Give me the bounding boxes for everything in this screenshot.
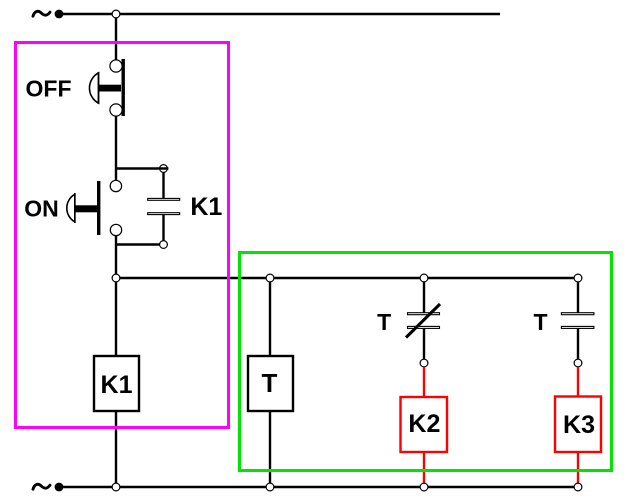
terminal dot bottom <box>55 483 64 492</box>
red wire: node to K3 coil <box>577 367 579 397</box>
timed contact T (NO) plate upper <box>561 313 594 315</box>
timer coil T <box>248 356 293 411</box>
wire: horizontal distribution rail <box>116 277 578 279</box>
svg-text:ON: ON <box>24 196 59 222</box>
wire: branch top horizontal <box>116 167 168 169</box>
wire: K3 branch upper <box>577 278 579 313</box>
red wire: K2 coil to bottom rail <box>423 452 425 487</box>
svg-text:OFF: OFF <box>26 76 72 102</box>
pushbutton ON (NO) contact bar <box>97 181 100 235</box>
contactor coil K3 <box>555 397 601 453</box>
svg-text:T: T <box>377 309 391 335</box>
svg-text:K1: K1 <box>101 371 133 399</box>
node: K3 branch top <box>574 274 582 282</box>
ON terminal circle upper <box>110 180 121 191</box>
wire: T coil to bottom rail <box>269 411 271 487</box>
node: K2 branch top <box>420 274 428 282</box>
wire: bottom supply rail <box>59 486 578 488</box>
AC source symbol top (~) <box>33 11 50 16</box>
relay coil K1 <box>94 356 139 411</box>
svg-text:K2: K2 <box>408 410 440 438</box>
pushbutton OFF (NC) actuator bar <box>122 59 125 116</box>
pushbutton ON mushroom cap <box>67 194 75 222</box>
red wire: K3 coil to bottom rail <box>577 452 579 487</box>
wire: K1 contact branch upper <box>162 172 164 198</box>
green highlight box (timer group) <box>240 253 612 471</box>
node: bottom rail T <box>266 483 274 491</box>
OFF terminal circle upper <box>110 60 122 72</box>
timed contact T (NC) plate lower <box>408 326 440 328</box>
magenta highlight box (start/stop latch group) <box>16 43 229 428</box>
terminal dot top <box>55 10 64 19</box>
wire: K1 coil to bottom rail <box>115 411 117 487</box>
svg-text:T: T <box>262 368 278 398</box>
svg-text:T: T <box>533 309 547 335</box>
wire: contact to node <box>423 328 425 359</box>
wire: K1 contact branch lower <box>162 214 164 244</box>
wire: branch bottom horizontal <box>116 243 164 245</box>
node: K3 mid <box>574 359 582 367</box>
wire: OFF to ON segment <box>115 116 117 180</box>
node: bottom rail K3 <box>574 483 582 491</box>
node: T branch top <box>266 274 274 282</box>
node: branch top <box>160 165 168 173</box>
node: K2 mid <box>420 359 428 367</box>
K1 contact plate upper <box>148 198 180 200</box>
pushbutton ON plunger <box>75 205 98 212</box>
pushbutton OFF mushroom cap <box>89 73 98 103</box>
wire: top supply rail <box>59 13 500 15</box>
node: bottom rail K2 <box>420 483 428 491</box>
node: main junction <box>112 274 120 282</box>
red wire: node to K2 coil <box>423 367 425 397</box>
contactor coil K2 <box>401 397 448 452</box>
timed contact slash <box>406 304 440 338</box>
svg-text:K3: K3 <box>563 411 595 439</box>
wire: T coil branch upper <box>269 278 271 356</box>
node: bottom rail K1 <box>112 483 120 491</box>
node: branch bottom <box>160 241 168 249</box>
svg-text:K1: K1 <box>190 193 222 221</box>
ON terminal circle lower <box>110 224 121 235</box>
node: top rail junction <box>112 10 120 18</box>
OFF terminal circle lower <box>110 104 122 116</box>
pushbutton OFF plunger <box>97 85 121 92</box>
wire: ON to junction <box>115 236 117 278</box>
wire: contact to node <box>577 328 579 359</box>
wire: main vertical drop from top rail <box>115 14 117 61</box>
wire: down to K1 coil <box>115 282 117 356</box>
wire: K2 branch upper <box>423 278 425 313</box>
timed contact T (NC) plate upper <box>408 313 440 315</box>
timed contact T (NO) plate lower <box>561 326 594 328</box>
AC source symbol bottom (~) <box>33 484 50 489</box>
K1 contact plate lower <box>148 213 180 215</box>
